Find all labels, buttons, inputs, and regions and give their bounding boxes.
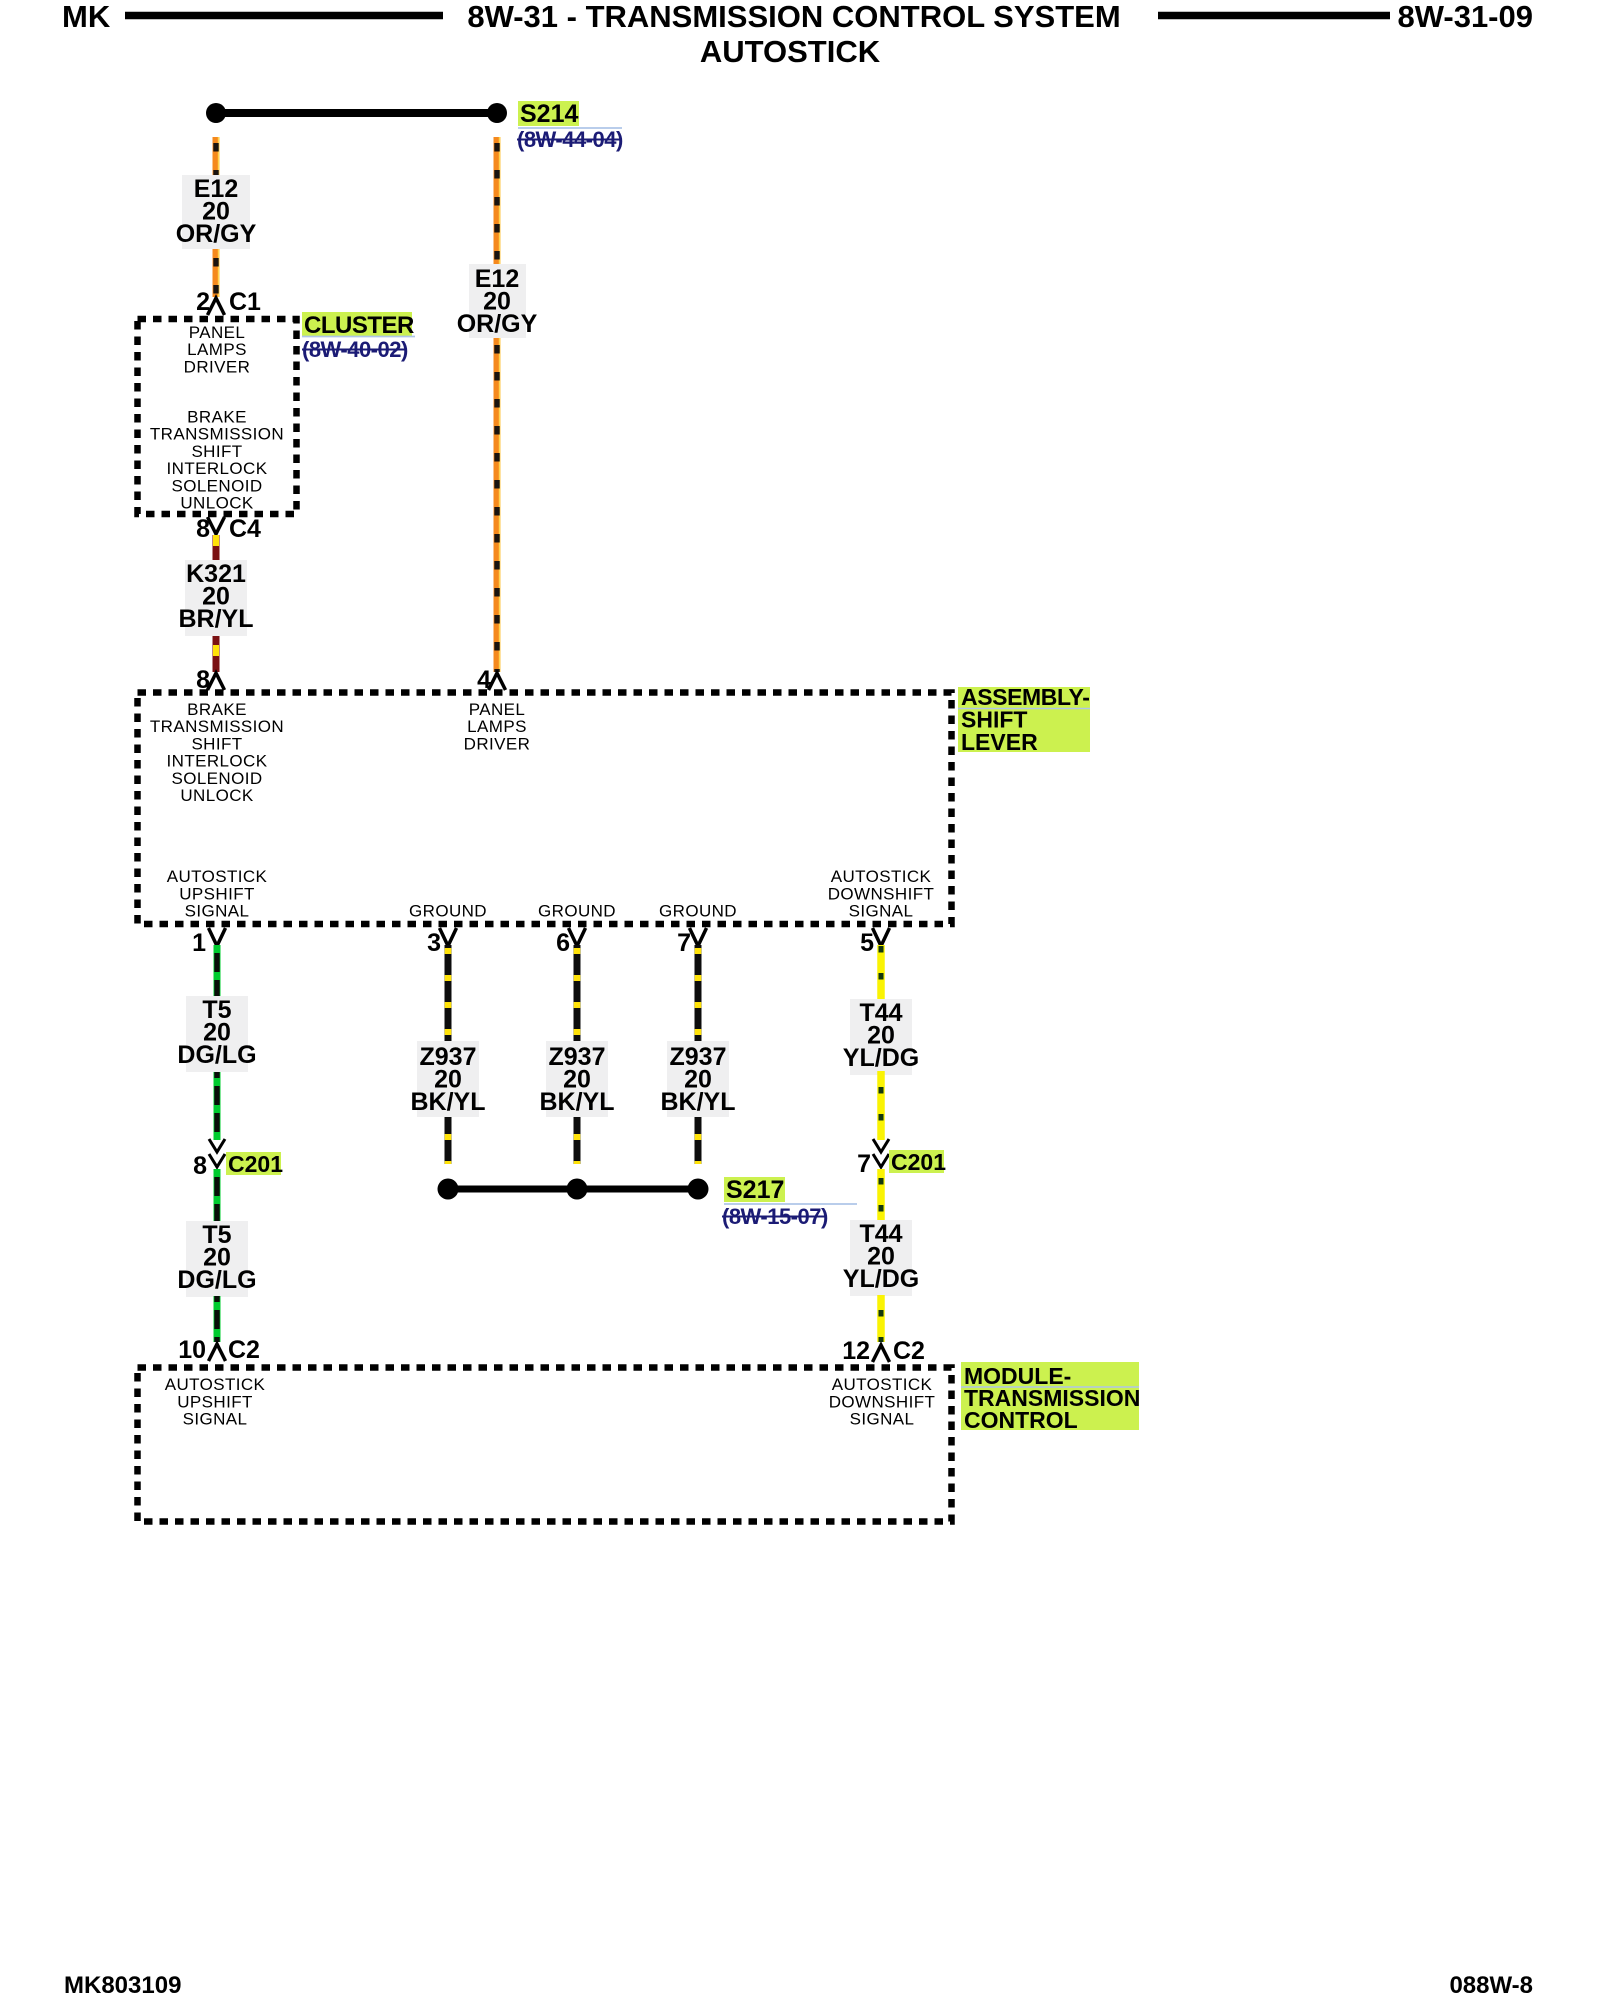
splice label S217 [724, 1177, 785, 1202]
svg-text:DOWNSHIFT: DOWNSHIFT [829, 1392, 936, 1411]
wire label T5 20 DG/LG (lower) [186, 1221, 248, 1297]
svg-text:DG/LG: DG/LG [177, 1041, 256, 1069]
svg-text:UPSHIFT: UPSHIFT [177, 1392, 253, 1411]
svg-text:BK/YL: BK/YL [540, 1088, 615, 1116]
svg-text:LAMPS: LAMPS [467, 717, 527, 736]
wire T44 YL/DG segment 4 [877, 1295, 885, 1342]
wire E12 OR/GY upper segment [213, 137, 220, 175]
pin 1 chevron [209, 928, 226, 946]
component label ASSEMBLY-SHIFT LEVER [958, 687, 1090, 752]
svg-text:C4: C4 [229, 515, 261, 543]
wire label Z937 20 BK/YL #1 [417, 1041, 479, 1117]
svg-text:LEVER: LEVER [961, 729, 1038, 755]
svg-text:SOLENOID: SOLENOID [171, 476, 262, 495]
svg-text:TRANSMISSION: TRANSMISSION [150, 425, 284, 444]
pin 6 chevron [569, 928, 586, 946]
wire T44 YL/DG segment 3 [877, 1169, 885, 1220]
wire Z937 BK/YL #1 segment 2 [445, 1117, 452, 1164]
svg-text:AUTOSTICK: AUTOSTICK [167, 867, 268, 886]
wire Z937 BK/YL #3 segment 1 [695, 945, 702, 1041]
svg-text:LAMPS: LAMPS [187, 340, 247, 359]
svg-text:TRANSMISSION: TRANSMISSION [150, 717, 284, 736]
wire label T44 20 YL/DG (lower) [850, 1220, 912, 1296]
svg-text:UNLOCK: UNLOCK [180, 786, 254, 805]
pin 5 chevron [873, 928, 890, 946]
wire E12 right upper segment [494, 137, 501, 264]
svg-text:BK/YL: BK/YL [411, 1088, 486, 1116]
svg-text:1: 1 [192, 929, 206, 957]
pin 10 chevron into TCM [209, 1344, 226, 1361]
svg-text:GROUND: GROUND [409, 902, 487, 921]
wire S214 splice bus [216, 109, 497, 117]
svg-text:10: 10 [178, 1336, 206, 1364]
svg-text:8W-31 - TRANSMISSION CONTROL S: 8W-31 - TRANSMISSION CONTROL SYSTEM [467, 0, 1120, 34]
svg-text:C1: C1 [229, 288, 261, 316]
wire label K321 20 BR/YL [185, 560, 247, 636]
wire T44 YL/DG segment 2 [877, 1071, 885, 1140]
svg-text:8W-31-09: 8W-31-09 [1398, 0, 1534, 34]
svg-text:GROUND: GROUND [538, 902, 616, 921]
wire label E12 20 OR/GY (left) [182, 175, 250, 249]
svg-text:PANEL: PANEL [469, 700, 526, 719]
svg-text:7: 7 [857, 1150, 871, 1178]
pin 12 chevron into TCM [873, 1345, 890, 1362]
svg-text:CLUSTER: CLUSTER [304, 312, 414, 339]
wire Z937 BK/YL #2 segment 1 [574, 945, 581, 1041]
svg-text:BRAKE: BRAKE [187, 408, 247, 427]
svg-text:S217: S217 [726, 1176, 784, 1204]
MODULE-TRANSMISSION CONTROL dashed box [138, 1368, 952, 1522]
component label MODULE-TRANSMISSION CONTROL [961, 1362, 1139, 1430]
pin 4 chevron into shift lever box [489, 673, 506, 690]
wire S217 splice bus [448, 1186, 698, 1193]
connector label C201 (left) [226, 1152, 281, 1175]
wire Z937 BK/YL #1 segment 1 [445, 945, 452, 1041]
svg-text:SIGNAL: SIGNAL [850, 1410, 915, 1429]
svg-text:7: 7 [677, 929, 691, 957]
header rule right [1158, 12, 1390, 20]
junction dot S217 middle [567, 1179, 588, 1200]
svg-text:SIGNAL: SIGNAL [183, 1410, 248, 1429]
svg-text:DRIVER: DRIVER [464, 734, 531, 753]
svg-text:SHIFT: SHIFT [191, 442, 242, 461]
svg-text:S214: S214 [520, 100, 578, 128]
svg-text:MK: MK [62, 0, 111, 34]
svg-text:5: 5 [860, 929, 874, 957]
wire label E12 20 OR/GY (right) [469, 264, 526, 338]
svg-text:AUTOSTICK: AUTOSTICK [700, 34, 881, 69]
svg-text:AUTOSTICK: AUTOSTICK [831, 867, 932, 886]
svg-text:INTERLOCK: INTERLOCK [167, 459, 268, 478]
svg-text:3: 3 [427, 929, 441, 957]
svg-text:DG/LG: DG/LG [177, 1266, 256, 1294]
svg-text:AUTOSTICK: AUTOSTICK [165, 1375, 266, 1394]
wire Z937 BK/YL #2 segment 2 [574, 1117, 581, 1164]
svg-text:GROUND: GROUND [659, 902, 737, 921]
pin 8 chevron into shift lever box [208, 673, 225, 690]
wire T5 DG/LG segment 2 [214, 1072, 221, 1140]
wire E12 right lower segment [494, 338, 501, 672]
svg-text:C201: C201 [891, 1149, 946, 1175]
svg-text:YL/DG: YL/DG [843, 1044, 919, 1072]
svg-text:BK/YL: BK/YL [661, 1088, 736, 1116]
svg-text:SHIFT: SHIFT [191, 734, 242, 753]
junction dot S217 left [438, 1179, 459, 1200]
junction dot right of S214 [487, 103, 507, 123]
component label CLUSTER [302, 312, 412, 336]
wire T5 DG/LG segment 1 [214, 945, 221, 996]
wire K321 BR/YL lower segment [213, 636, 220, 672]
wire T44 YL/DG segment 1 [877, 945, 885, 999]
wire label Z937 20 BK/YL #3 [667, 1041, 729, 1117]
svg-text:C2: C2 [893, 1337, 925, 1365]
svg-text:UPSHIFT: UPSHIFT [179, 884, 255, 903]
ASSEMBLY-SHIFT LEVER dashed box [138, 693, 952, 925]
wire T5 DG/LG segment 4 [214, 1296, 221, 1342]
wire Z937 BK/YL #3 segment 2 [695, 1117, 702, 1164]
svg-text:8: 8 [193, 1152, 207, 1180]
svg-text:DRIVER: DRIVER [184, 357, 251, 376]
pin 3 chevron [440, 928, 457, 946]
svg-text:BR/YL: BR/YL [179, 605, 254, 633]
connector label C201 (right) [889, 1150, 944, 1173]
connector C4 chevron [208, 517, 225, 534]
wire label T5 20 DG/LG (upper) [186, 996, 248, 1072]
junction dot S217 right [688, 1179, 709, 1200]
svg-text:INTERLOCK: INTERLOCK [167, 752, 268, 771]
junction dot left of S214 [206, 103, 226, 123]
svg-text:6: 6 [556, 929, 570, 957]
wire E12 OR/GY lower segment [213, 249, 220, 297]
svg-text:088W-8: 088W-8 [1449, 1972, 1533, 1999]
wire label Z937 20 BK/YL #2 [546, 1041, 608, 1117]
svg-text:SIGNAL: SIGNAL [185, 902, 250, 921]
svg-text:CONTROL: CONTROL [964, 1407, 1078, 1433]
svg-text:YL/DG: YL/DG [843, 1265, 919, 1293]
svg-text:UNLOCK: UNLOCK [180, 494, 254, 513]
splice label S214 [518, 101, 579, 126]
svg-text:DOWNSHIFT: DOWNSHIFT [828, 884, 935, 903]
pin 7 chevron [690, 928, 707, 946]
CLUSTER component dashed box [138, 319, 297, 514]
svg-text:OR/GY: OR/GY [176, 220, 257, 248]
svg-text:C2: C2 [228, 1336, 260, 1364]
wire K321 BR/YL upper segment [213, 535, 220, 560]
svg-text:AUTOSTICK: AUTOSTICK [832, 1375, 933, 1394]
header rule left [125, 12, 443, 20]
svg-text:OR/GY: OR/GY [457, 310, 538, 338]
wire T5 DG/LG segment 3 [214, 1169, 221, 1221]
svg-text:C201: C201 [228, 1151, 283, 1177]
wire label T44 20 YL/DG (upper) [850, 999, 912, 1075]
connector C201 left double chevron [209, 1139, 225, 1152]
svg-text:BRAKE: BRAKE [187, 700, 247, 719]
svg-text:MK803109: MK803109 [64, 1972, 181, 1999]
svg-text:SIGNAL: SIGNAL [849, 902, 914, 921]
svg-text:PANEL: PANEL [189, 323, 246, 342]
connector C1 chevron [208, 298, 225, 315]
connector C201 right double chevron [873, 1139, 889, 1152]
svg-text:SOLENOID: SOLENOID [171, 769, 262, 788]
svg-text:12: 12 [842, 1337, 870, 1365]
